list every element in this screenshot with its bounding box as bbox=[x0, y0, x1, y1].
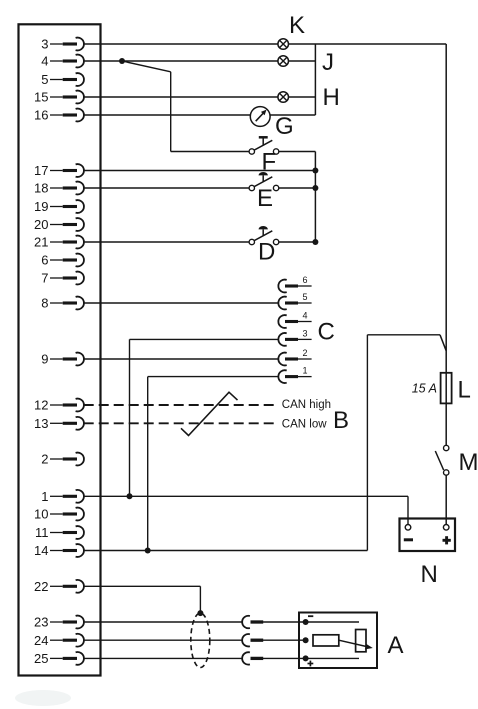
svg-text:14: 14 bbox=[34, 543, 48, 558]
svg-text:G: G bbox=[275, 113, 294, 140]
svg-text:15: 15 bbox=[34, 90, 48, 105]
svg-text:F: F bbox=[262, 149, 277, 176]
svg-text:21: 21 bbox=[34, 235, 48, 250]
svg-text:7: 7 bbox=[41, 271, 48, 286]
svg-text:D: D bbox=[258, 239, 275, 266]
svg-text:1: 1 bbox=[302, 366, 307, 376]
svg-text:L: L bbox=[458, 377, 471, 404]
svg-text:11: 11 bbox=[35, 525, 49, 540]
svg-text:K: K bbox=[289, 12, 305, 39]
svg-text:B: B bbox=[333, 407, 349, 434]
svg-text:M: M bbox=[459, 449, 478, 476]
svg-text:10: 10 bbox=[34, 507, 48, 522]
svg-text:6: 6 bbox=[41, 253, 48, 268]
svg-text:C: C bbox=[318, 319, 335, 346]
svg-text:25: 25 bbox=[34, 651, 48, 666]
svg-text:17: 17 bbox=[34, 163, 48, 178]
svg-text:H: H bbox=[323, 84, 340, 111]
svg-text:1: 1 bbox=[41, 489, 48, 504]
svg-text:20: 20 bbox=[34, 217, 48, 232]
svg-text:3: 3 bbox=[302, 328, 307, 338]
svg-text:16: 16 bbox=[34, 108, 48, 123]
svg-text:8: 8 bbox=[41, 296, 48, 311]
svg-text:5: 5 bbox=[302, 292, 307, 302]
svg-text:22: 22 bbox=[34, 579, 48, 594]
svg-text:4: 4 bbox=[41, 54, 48, 69]
svg-text:13: 13 bbox=[34, 416, 48, 431]
svg-text:2: 2 bbox=[302, 348, 307, 358]
svg-text:24: 24 bbox=[34, 633, 48, 648]
svg-text:5: 5 bbox=[41, 72, 48, 87]
svg-text:9: 9 bbox=[41, 352, 48, 367]
svg-text:N: N bbox=[421, 561, 438, 588]
svg-text:15 A: 15 A bbox=[412, 382, 437, 396]
svg-text:A: A bbox=[388, 632, 404, 659]
svg-text:12: 12 bbox=[34, 398, 48, 413]
svg-text:CAN low: CAN low bbox=[282, 419, 327, 431]
svg-text:19: 19 bbox=[34, 199, 48, 214]
svg-text:3: 3 bbox=[41, 37, 48, 52]
svg-text:6: 6 bbox=[302, 275, 307, 285]
svg-text:18: 18 bbox=[34, 181, 48, 196]
svg-text:2: 2 bbox=[41, 452, 48, 467]
svg-text:J: J bbox=[322, 49, 334, 76]
svg-text:23: 23 bbox=[34, 615, 48, 630]
svg-text:E: E bbox=[257, 185, 273, 212]
svg-text:CAN high: CAN high bbox=[282, 399, 331, 411]
svg-text:4: 4 bbox=[302, 311, 307, 321]
